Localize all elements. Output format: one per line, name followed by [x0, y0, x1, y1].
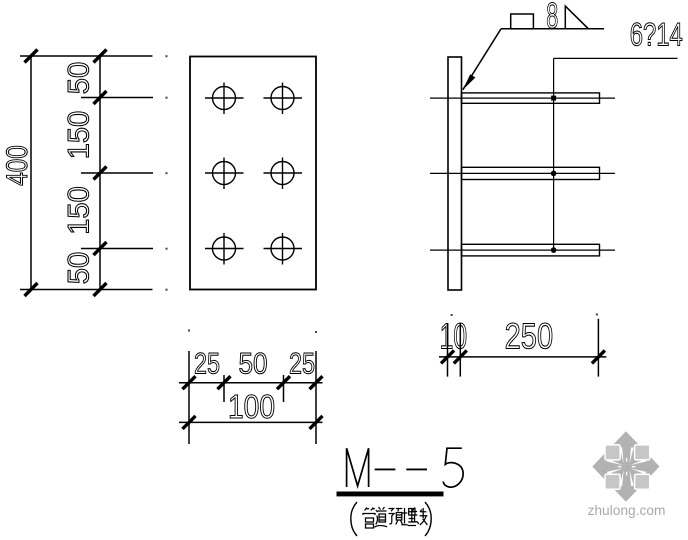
label 150 upper	[63, 111, 96, 160]
dimension line 25 50 25	[179, 382, 323, 384]
svg-text:400: 400	[1, 145, 34, 186]
subtitle char guan	[363, 508, 375, 529]
svg-text:150: 150	[63, 111, 96, 160]
label 50 top	[63, 62, 96, 95]
title digit 5	[443, 448, 463, 487]
subtitle char tie	[412, 508, 427, 526]
watermark logo squares	[605, 445, 650, 489]
weld leader arrowhead	[463, 74, 476, 90]
weld symbol box	[511, 14, 534, 29]
label 250	[505, 315, 554, 356]
hole A2	[205, 158, 244, 190]
label 100	[228, 388, 275, 425]
label 25 right	[289, 348, 315, 381]
watermark logo diamond	[592, 431, 659, 502]
title underline bar	[337, 492, 444, 497]
weld symbol reference line	[501, 28, 604, 30]
hole B1	[264, 83, 303, 115]
label 150 lower	[63, 186, 96, 235]
weld size label 8	[546, 0, 558, 36]
side view extension lines	[448, 319, 599, 377]
svg-text:50: 50	[63, 62, 96, 95]
svg-text:250: 250	[505, 315, 554, 356]
anchor bar 1	[462, 93, 600, 103]
rebar node dot 1	[551, 96, 556, 101]
label 400	[1, 145, 34, 186]
bottom extension lines front view	[189, 351, 316, 444]
title dash 2	[406, 468, 427, 470]
plate front view	[190, 57, 316, 290]
watermark logo white rays	[607, 447, 647, 486]
subtitle opening paren	[351, 502, 357, 536]
svg-text:150: 150	[63, 186, 96, 235]
weld leader line	[463, 29, 501, 90]
watermark text zhulong.com	[588, 502, 666, 518]
anchor bar 1 centerline	[430, 97, 615, 99]
ticks 100	[183, 416, 323, 429]
ticks 25 50 25	[183, 376, 323, 389]
side view extension dots	[451, 314, 598, 317]
overall height dimension line 400	[25, 50, 38, 297]
subtitle char yu	[389, 509, 403, 525]
hole A1	[205, 83, 244, 115]
anchor bar 3	[462, 244, 600, 256]
ticks 10 250	[441, 350, 605, 363]
subtitle char mai	[401, 508, 416, 526]
subtitle char dao	[375, 507, 388, 527]
extension lines left dimensions	[20, 56, 153, 290]
rebar node dot 2	[551, 171, 557, 177]
svg-text:25: 25	[289, 348, 315, 381]
rebar leader horizontal line	[554, 57, 678, 59]
rebar leader vertical line	[553, 58, 555, 250]
label 6?14	[630, 17, 683, 53]
subtitle closing paren	[425, 502, 431, 536]
rebar node dot 3	[551, 247, 557, 253]
svg-text:8: 8	[546, 0, 558, 36]
svg-text:25: 25	[194, 348, 220, 381]
extension line gap dots	[166, 55, 168, 291]
watermark logo center cross gaps	[618, 458, 636, 475]
hole A3	[205, 233, 244, 265]
dimension line 10 250	[439, 356, 606, 358]
label 50 mid	[239, 348, 268, 381]
svg-text:10: 10	[440, 315, 468, 356]
title M--5 letter M	[347, 448, 369, 487]
anchor bar 3 centerline	[430, 249, 615, 251]
label 10	[440, 315, 468, 356]
anchor bar 2	[462, 167, 600, 179]
hole B3	[264, 233, 303, 265]
hole B2	[264, 158, 303, 190]
bottom extension dots	[188, 330, 317, 334]
segment dimension line (50/150/150/50)	[99, 56, 101, 290]
dimension line 100	[179, 421, 323, 423]
side view plate	[448, 57, 462, 290]
title dash 1	[375, 468, 396, 470]
svg-text:zhulong.com: zhulong.com	[588, 502, 666, 518]
label 50 bottom	[63, 252, 96, 285]
svg-text:6?14: 6?14	[630, 17, 683, 53]
fillet weld triangle	[565, 6, 588, 29]
tick marks on segment line	[94, 50, 107, 297]
anchor bar 2 centerline	[430, 172, 615, 174]
svg-text:50: 50	[63, 252, 96, 285]
label 25 left	[194, 348, 220, 381]
svg-text:50: 50	[239, 348, 268, 381]
svg-text:100: 100	[228, 388, 275, 425]
